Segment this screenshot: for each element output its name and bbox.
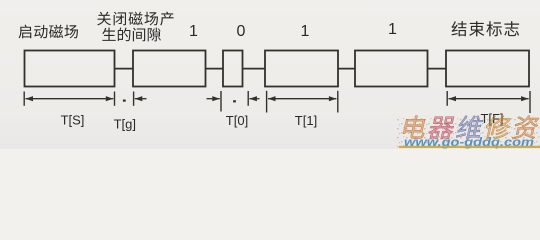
dimension T[0]: left tick xyxy=(220,91,222,112)
dimension T[0]: right tick xyxy=(247,91,249,106)
dimension T[0]: centre dot xyxy=(233,100,236,102)
dimension T[1]: right tick xyxy=(337,91,339,113)
watermark: scan noise speckle xyxy=(397,116,540,148)
wire: gap connector between pulse 4 and pulse 5 xyxy=(338,68,355,70)
pulse box 6: end-marker pulse xyxy=(446,51,529,87)
label: 结束标志 (end marker) over pulse 6 xyxy=(451,21,466,36)
dimension T[F]: left tick xyxy=(446,91,448,106)
dimension T[S]/T[g]: shared tick xyxy=(114,92,116,106)
pulse box 1: start-field pulse xyxy=(25,51,115,87)
wire: gap connector between pulse 1 and pulse 2 xyxy=(115,68,134,70)
svg-text:T[S]: T[S] xyxy=(61,113,85,128)
watermark: yellow underline xyxy=(399,146,540,148)
dimension T[1]: arrow line xyxy=(268,98,336,100)
paper background xyxy=(0,0,540,149)
watermark: coloured site logo 电器维修资料 xyxy=(402,116,540,140)
pulse box 2: bit '1' pulse xyxy=(133,51,206,87)
wire: gap connector between pulse 3 and pulse 4 xyxy=(243,68,266,70)
dimension T[0]: left outside arrow xyxy=(207,98,220,100)
dimension T[g]: right outside arrow xyxy=(135,98,147,100)
label: 关闭磁场产生的间隙 (gap from switching field off), two lines xyxy=(97,12,111,26)
svg-text:0: 0 xyxy=(237,23,246,40)
wire: gap connector between pulse 5 and pulse 6 xyxy=(428,68,447,70)
svg-text:1: 1 xyxy=(301,23,310,40)
dimension T[1]: left tick xyxy=(266,91,268,113)
svg-text:1: 1 xyxy=(388,21,397,38)
dimension T[S]: arrow line xyxy=(26,98,114,100)
paper scan texture xyxy=(0,0,540,149)
svg-text:T[0]: T[0] xyxy=(226,113,248,128)
dimension T[0]: right outside arrow xyxy=(249,98,259,100)
pulse box 4: bit '1' pulse xyxy=(265,51,338,87)
dimension T[F]: arrow line xyxy=(449,98,529,100)
dimension T[S]: left tick xyxy=(23,92,25,106)
svg-text:T[1]: T[1] xyxy=(295,113,317,128)
pulse box 5: bit '1' pulse xyxy=(355,51,428,87)
svg-text:T[g]: T[g] xyxy=(114,117,136,132)
dimension T[g]: centre dot xyxy=(123,100,126,102)
wire: gap connector between pulse 2 and pulse 3 xyxy=(206,68,224,70)
pulse box 3: bit '0' pulse xyxy=(223,51,243,87)
label: 启动磁场 (start field) over pulse 1 xyxy=(19,25,32,39)
dimension T[F]: right tick xyxy=(529,91,531,113)
dimension T[g]: right tick xyxy=(133,92,135,106)
svg-text:1: 1 xyxy=(189,23,198,40)
